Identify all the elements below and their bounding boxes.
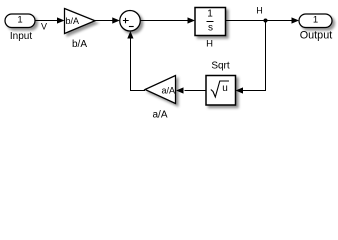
svg-text:s: s bbox=[208, 23, 213, 34]
svg-text:H: H bbox=[256, 6, 263, 16]
svg-text:V: V bbox=[41, 22, 47, 32]
svg-text:H: H bbox=[206, 39, 213, 50]
svg-text:b/A: b/A bbox=[66, 16, 80, 26]
svg-text:Input: Input bbox=[10, 31, 32, 42]
svg-text:1: 1 bbox=[17, 15, 22, 26]
svg-text:u: u bbox=[222, 83, 228, 94]
svg-text:Sqrt: Sqrt bbox=[211, 61, 230, 72]
svg-text:Output: Output bbox=[300, 30, 332, 42]
svg-text:b/A: b/A bbox=[72, 39, 87, 50]
svg-text:1: 1 bbox=[313, 15, 318, 26]
svg-text:1: 1 bbox=[207, 9, 213, 20]
svg-text:a/A: a/A bbox=[161, 86, 175, 96]
svg-text:a/A: a/A bbox=[152, 109, 167, 120]
